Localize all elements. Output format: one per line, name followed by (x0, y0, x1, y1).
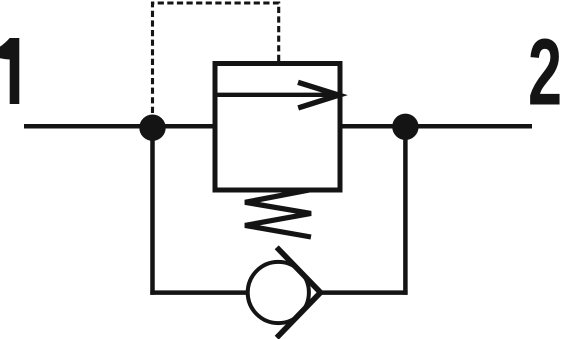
check valve V1: ball circle (248, 262, 309, 323)
spring below valve body (245, 190, 311, 237)
wire: main line left segment (port 1 to valve body) (24, 124, 215, 129)
wire: main line right segment (valve body to port 2) (340, 124, 532, 129)
node B (junction dot, port 2 side) (392, 114, 418, 140)
flow path arrow inside valve body (215, 93, 339, 97)
node A (junction dot, port 1 side) (139, 115, 165, 141)
valve body U1 (square envelope) (215, 64, 340, 191)
wire: bypass left vertical from node A (150, 135, 155, 295)
port label 1 (0, 38, 19, 104)
wire: bypass right vertical to node B (403, 135, 408, 295)
svg-text:2: 2 (528, 20, 562, 126)
pilot line (dashed) from node A up and over to valve top (153, 3, 279, 113)
wire: bypass bottom left horizontal (150, 290, 247, 295)
check valve V1: seat (277, 247, 321, 337)
wire: bypass bottom right horizontal (321, 290, 408, 295)
